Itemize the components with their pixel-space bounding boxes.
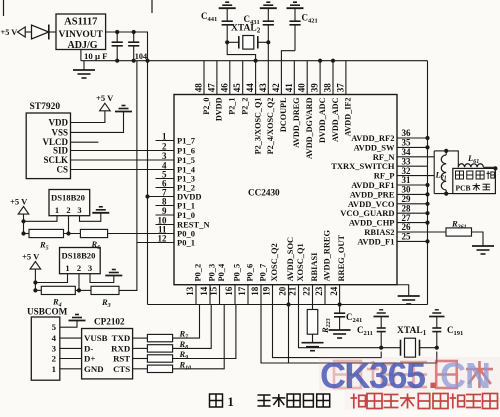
wire loop bottom <box>434 193 453 195</box>
svg-text:P2_0: P2_0 <box>202 98 211 115</box>
junction pin20 bus <box>286 302 290 306</box>
wire R3 to pin12 P0_1 <box>119 243 137 291</box>
svg-text:RST: RST <box>113 354 130 364</box>
pin 4 P1_4 <box>156 169 175 171</box>
junction rail corner <box>145 59 149 63</box>
wire node to L61 <box>446 151 458 167</box>
inverted ground above C211 <box>374 316 389 318</box>
svg-text:20: 20 <box>278 286 288 296</box>
junction pin2 R4R3 <box>77 288 81 292</box>
capacitor 104 <box>133 32 135 42</box>
svg-text:1: 1 <box>55 205 59 215</box>
pin 12 P0_1 <box>156 242 175 244</box>
pin 45 P2_2 <box>242 61 244 95</box>
svg-text:CN: CN <box>440 355 490 396</box>
svg-text:15: 15 <box>209 286 219 296</box>
svg-text:17: 17 <box>237 286 247 296</box>
wire USBCOM pin1 to GND <box>60 368 82 370</box>
svg-text:AVDD_RREG: AVDD_RREG <box>323 230 332 282</box>
svg-text:P1_1: P1_1 <box>177 201 195 211</box>
pin 23 AVDD_RREG <box>324 285 326 305</box>
svg-text:AVDD_DREG: AVDD_DREG <box>292 97 301 148</box>
svg-text:44: 44 <box>245 83 255 93</box>
junction pin 28 bus <box>425 211 429 215</box>
wire DS18B20-2 pin1 to +5V <box>35 274 67 283</box>
wire +5V to diode <box>25 31 31 33</box>
pin 37 AVDD_IF2 <box>345 61 347 95</box>
wire R261 to ground <box>472 232 484 246</box>
capacitor C441 <box>226 25 228 43</box>
voltage regulator U2 AS1117 <box>56 14 106 50</box>
junction L71 bottom <box>444 192 448 196</box>
inverted ground above C441 <box>219 7 236 9</box>
svg-text:ADJ/G: ADJ/G <box>68 40 98 51</box>
svg-text:39: 39 <box>310 83 320 93</box>
svg-text:2: 2 <box>52 354 57 364</box>
junction L71 top <box>444 149 448 153</box>
wire USBCOM pin4 to VUSB <box>60 337 82 339</box>
svg-text:TXD: TXD <box>112 333 131 343</box>
svg-text:42: 42 <box>271 83 281 93</box>
sensor U3 DS18B20 body <box>49 190 90 216</box>
inductor L71 <box>441 155 446 190</box>
pin 25 AVDD_F1 <box>397 240 428 242</box>
resistor R3 <box>91 286 119 294</box>
pin 41 AVDD_DREG <box>293 61 295 95</box>
pin 18 P0_7 <box>260 285 262 305</box>
wire AS1117 VOUT to bus corner <box>106 32 148 61</box>
junction +5V pin1 tap 2 <box>33 280 37 284</box>
inverted ground DS18B20 1 <box>92 212 109 214</box>
capacitor 10uF <box>116 32 118 42</box>
capacitor C241 <box>339 305 341 314</box>
svg-text:DCOUPL: DCOUPL <box>279 97 288 132</box>
svg-text:24: 24 <box>329 286 339 296</box>
pin 29 AVDD_VCO <box>397 203 428 205</box>
svg-text:16: 16 <box>224 286 234 296</box>
antenna box PCB antenna <box>453 168 496 193</box>
wire R6 to pin11 P0_0 <box>108 233 156 235</box>
svg-text:P1_6: P1_6 <box>177 146 195 156</box>
pin 48 P2_0 <box>203 61 205 95</box>
junction pin 35 bus <box>425 145 429 149</box>
junction +5V pin1 tap <box>21 219 25 223</box>
svg-text:P0_6: P0_6 <box>246 264 255 282</box>
svg-text:25: 25 <box>402 232 412 242</box>
pin 34 RF_N <box>397 156 434 158</box>
svg-text:+5 V: +5 V <box>22 252 40 262</box>
junction pin44 on rail <box>254 59 258 63</box>
wire crystal-left jog to pin 44 <box>227 42 255 94</box>
wire DVDD feed to pin 7 <box>148 196 175 198</box>
svg-text:CS: CS <box>56 165 68 175</box>
watermark background tint <box>319 357 500 391</box>
svg-text:+5 V: +5 V <box>96 93 114 103</box>
capacitor C431 <box>267 25 269 43</box>
svg-text:8: 8 <box>162 196 167 206</box>
svg-text:P0_2: P0_2 <box>194 264 203 282</box>
svg-text:ST7920: ST7920 <box>30 102 61 112</box>
wire ST7920 VDD to +5V <box>71 111 105 123</box>
pin 13 P0_2 <box>195 285 197 305</box>
svg-text:P1_7: P1_7 <box>177 136 196 146</box>
watermark slogan red text <box>351 394 366 409</box>
svg-text:2: 2 <box>162 141 167 151</box>
svg-text:P1_0: P1_0 <box>177 210 195 220</box>
wire pin19 to C211 node <box>273 305 382 358</box>
pin 2 P1_6 <box>156 150 175 152</box>
svg-text:AVDD_F1: AVDD_F1 <box>357 236 394 246</box>
junction +5V R5 tap <box>21 231 25 235</box>
pin 20 AVDD_SOC <box>288 285 290 305</box>
pin 8 P1_1 <box>156 205 175 207</box>
svg-text:19: 19 <box>262 286 272 296</box>
pin 9 P1_0 <box>156 214 175 216</box>
resistor R8 <box>147 345 172 352</box>
wire pin18 to C191 node <box>261 305 437 364</box>
wire DS18B20-2 pin3 to ground <box>90 274 114 283</box>
svg-text:VIN: VIN <box>59 30 77 40</box>
pin 5 P1_3 <box>156 178 175 180</box>
junction crystal right node <box>266 40 270 44</box>
svg-text:SCLK: SCLK <box>43 155 68 165</box>
wire C421 to pin 42 DCOUPL <box>281 51 295 95</box>
wire R9 to pin16 <box>173 305 236 359</box>
right power bus vertical <box>427 61 429 305</box>
wire CTS to R10 <box>133 368 148 370</box>
power rail segment left <box>81 60 148 62</box>
svg-text:XTAL1: XTAL1 <box>397 326 427 337</box>
resistor R6 <box>80 229 107 237</box>
wire ST7920 CS to pin4 <box>71 169 156 171</box>
svg-text:CC2430: CC2430 <box>248 188 280 198</box>
junction pin 29 bus <box>425 202 429 206</box>
svg-text:3: 3 <box>162 151 167 161</box>
wire L61 to antenna <box>483 166 495 168</box>
svg-text:AVDD_ADC: AVDD_ADC <box>331 97 340 142</box>
svg-text:DS18B20: DS18B20 <box>62 251 96 261</box>
svg-text:SID: SID <box>53 146 69 156</box>
svg-text:21: 21 <box>288 286 298 296</box>
wire loop top <box>434 150 446 152</box>
wire balun loop left edge <box>433 151 435 194</box>
svg-text:46: 46 <box>219 83 229 93</box>
resistor R10 <box>147 365 172 372</box>
svg-text:CP2102: CP2102 <box>94 317 125 327</box>
pin 32 RF_P <box>397 175 434 177</box>
wire DS18B20-1 pin3 to ground <box>80 213 101 222</box>
vertical DVDD feed line <box>147 61 149 305</box>
pin 7 DVDD <box>156 196 175 198</box>
wire RXD to R8 <box>133 347 148 349</box>
wire crystal-right to pin 43 <box>267 42 269 94</box>
vertical feed line to pin12 net <box>136 61 138 243</box>
svg-text:USBCOM: USBCOM <box>27 307 68 317</box>
svg-text:P2_2: P2_2 <box>241 98 250 115</box>
bottom power bus <box>148 304 428 306</box>
svg-text:CTS: CTS <box>113 364 130 374</box>
svg-text:2: 2 <box>66 205 70 215</box>
svg-text:48: 48 <box>194 83 204 93</box>
svg-text:DVDD_ADC: DVDD_ADC <box>318 97 327 143</box>
svg-text:AVDD_IF2: AVDD_IF2 <box>344 98 353 137</box>
pin 36 AVDD_RF2 <box>397 137 428 139</box>
svg-text:VOUT: VOUT <box>76 30 104 40</box>
wire pin21 to crystal left node <box>299 305 382 348</box>
svg-text:P0_5: P0_5 <box>233 264 242 282</box>
junction pin 27 bus <box>425 221 429 225</box>
svg-text:38: 38 <box>323 83 333 93</box>
pin 10 REST_N <box>156 224 175 226</box>
pin 28 VCO_GUARD <box>397 212 428 214</box>
inverted ground above C431 <box>260 7 277 9</box>
ic U1 CC2430 body <box>174 95 397 285</box>
svg-text:3: 3 <box>77 205 81 215</box>
wire R7 to pin13 <box>173 305 200 339</box>
ground below R261 <box>472 245 494 247</box>
svg-text:VDD: VDD <box>49 118 69 128</box>
inverted ground above VSS wire <box>115 111 132 113</box>
svg-text:1: 1 <box>228 395 234 409</box>
pin 33 TXRX_SWITCH <box>397 165 428 167</box>
pin 47 DVDD <box>216 61 218 95</box>
junction VOUT-C10u <box>115 30 119 34</box>
wire R5 to R6 <box>64 233 81 235</box>
wire pin20 below bus <box>288 305 290 364</box>
svg-text:+5 V: +5 V <box>10 197 28 207</box>
junction pin 31 bus <box>425 183 429 187</box>
caption figure 1 system schematic <box>210 394 223 407</box>
ground below R223 <box>302 342 324 344</box>
pin 30 AVDD_PRE <box>397 193 428 195</box>
svg-text:43: 43 <box>258 83 268 93</box>
wire RST to R9 <box>133 358 148 360</box>
svg-text:2: 2 <box>77 263 81 273</box>
svg-text:47: 47 <box>206 83 216 93</box>
pin 16 P0_5 <box>234 285 236 305</box>
pin 21 XOSC_Q1 <box>298 285 300 305</box>
wire R4 to R3 <box>75 289 91 291</box>
pin 22 RBIASI <box>312 285 314 305</box>
pin 26 RBIAS2 <box>397 231 446 233</box>
svg-text:XOSC_Q2: XOSC_Q2 <box>270 243 279 281</box>
svg-text:P0_1: P0_1 <box>177 238 195 248</box>
wire crop artifact top-left <box>3 0 5 16</box>
junction pin 30 bus <box>425 192 429 196</box>
svg-text:1: 1 <box>65 263 69 273</box>
svg-text:P2_1: P2_1 <box>228 98 237 115</box>
pin 17 P0_6 <box>247 285 249 305</box>
pin 27 AVDD_CHP <box>397 222 428 224</box>
svg-text:P0_3: P0_3 <box>208 264 217 282</box>
svg-text:CK365: CK365 <box>320 355 426 396</box>
svg-text:9: 9 <box>162 206 167 216</box>
wire ST7920 SID to pin2 <box>71 150 156 152</box>
svg-text:41: 41 <box>284 83 294 93</box>
wire USBCOM pin2 to D+ <box>60 358 82 360</box>
svg-text:+5 V: +5 V <box>1 28 18 37</box>
pin 19 XOSC_Q2 <box>272 285 274 305</box>
inverted ground above C421 <box>287 7 304 9</box>
resistor R223 <box>312 305 314 310</box>
diode D1 <box>32 25 49 39</box>
resistor R9 <box>147 355 172 362</box>
svg-text:3: 3 <box>52 343 57 353</box>
junction pin 36 bus <box>425 136 429 140</box>
inverted ground above C191 <box>429 316 444 318</box>
wire USBCOM pin3 to D- <box>60 347 82 349</box>
svg-text:10 μ F: 10 μ F <box>84 51 108 61</box>
svg-text:AS1117: AS1117 <box>64 17 97 28</box>
svg-text:RBIASI: RBIASI <box>310 253 319 282</box>
wire USBCOM pin5 to ground <box>60 321 77 328</box>
inverted ground USBCOM <box>69 320 86 322</box>
pin 24 RREG_OUT <box>339 285 341 305</box>
svg-text:P0_4: P0_4 <box>217 263 226 281</box>
junction VOUT-C104 <box>132 30 136 34</box>
svg-text:AVDD_DGVARD: AVDD_DGVARD <box>305 97 314 159</box>
capacitor C421 <box>294 25 296 51</box>
resistor R7 <box>147 334 172 341</box>
junction crystal left node <box>225 40 229 44</box>
wire R10 to pin15 <box>173 305 225 369</box>
svg-text:P2_4/XOSC_Q2: P2_4/XOSC_Q2 <box>266 98 275 155</box>
pin 1 P1_7 <box>156 140 175 142</box>
svg-text:104: 104 <box>135 52 147 61</box>
svg-text:RXD: RXD <box>111 343 130 353</box>
svg-text:3: 3 <box>88 263 92 273</box>
svg-text:RREG_OUT: RREG_OUT <box>337 235 346 282</box>
pin 6 P1_2 <box>156 187 175 189</box>
svg-text:45: 45 <box>232 83 242 93</box>
wire DS18B20-1 pin1 to +5V <box>24 216 58 222</box>
svg-text:14: 14 <box>199 286 209 296</box>
svg-text:D-: D- <box>84 343 93 353</box>
watermark red hanzi overlay <box>334 361 361 388</box>
junction pin24 bus C241 <box>338 302 342 306</box>
inductor L61 <box>458 164 483 168</box>
pin 31 AVDD_RF1 <box>397 184 428 186</box>
svg-text:1: 1 <box>52 364 56 374</box>
svg-text:P2_3/XOSC_Q1: P2_3/XOSC_Q1 <box>253 98 262 155</box>
junction pin2 R5R6 <box>66 231 70 235</box>
svg-text:GND: GND <box>84 364 104 374</box>
wire crop artifact near x=152 <box>151 0 153 13</box>
svg-text:5: 5 <box>52 322 57 332</box>
wire TXD to R7 <box>133 337 148 339</box>
ground below C241 <box>329 329 351 331</box>
resistor R5 <box>24 233 30 235</box>
inverted ground DS18B20 2 <box>105 275 122 277</box>
junction DVDD to pin7 <box>145 194 149 198</box>
svg-text:AVDD_SOC: AVDD_SOC <box>286 237 295 282</box>
svg-text:4: 4 <box>52 333 57 343</box>
pin 35 AVDD_SW <box>397 146 428 148</box>
junction antenna corner <box>493 166 497 170</box>
crystal XTAL1 <box>381 347 400 349</box>
svg-text:37: 37 <box>335 83 345 93</box>
svg-text:P1_5: P1_5 <box>177 155 195 165</box>
junction pin39 rail <box>318 59 322 63</box>
wire ST7920 SCLK to pin3 <box>71 159 156 161</box>
svg-text:XOSC_Q1: XOSC_Q1 <box>296 243 305 281</box>
svg-text:DVDD: DVDD <box>215 97 224 121</box>
wire AS1117 ADJ to ground rail <box>80 50 82 61</box>
sensor U4 DS18B20 body <box>60 248 101 274</box>
wire R8 to pin14 <box>173 305 212 349</box>
junction pin38 rail <box>331 59 335 63</box>
svg-text:40: 40 <box>297 83 307 93</box>
svg-text:PCB: PCB <box>456 184 471 193</box>
svg-text:VUSB: VUSB <box>84 333 108 343</box>
pin 39 DVDD_ADC <box>319 61 321 95</box>
pin 15 P0_4 <box>219 285 221 305</box>
+5V input arrow <box>18 27 26 37</box>
resistor R261 <box>446 228 472 236</box>
pin 11 P0_0 <box>156 233 175 235</box>
ground below chip right <box>398 295 420 297</box>
crystal XTAL2 <box>243 36 254 50</box>
svg-text:18: 18 <box>250 286 260 296</box>
svg-text:VSS: VSS <box>51 127 68 137</box>
resistor R4 <box>35 289 41 291</box>
pin 40 AVDD_DGVARD <box>306 61 308 95</box>
wire ST7920 VLCD stub <box>71 141 99 143</box>
svg-text:1: 1 <box>162 131 167 141</box>
pin 14 P0_3 <box>209 285 211 305</box>
junction +5V R4 tap <box>33 288 37 292</box>
svg-text:.: . <box>428 355 438 396</box>
wire DS18B20-1 pin2 down <box>68 216 70 234</box>
wire ST7920 VSS to ground <box>71 112 124 133</box>
pin 3 P1_5 <box>156 159 175 161</box>
capacitor C211 <box>379 346 383 350</box>
pin 38 AVDD_ADC <box>332 61 334 95</box>
svg-text:22: 22 <box>302 286 312 296</box>
wire diode to AS1117 <box>49 31 56 33</box>
svg-text:13: 13 <box>185 286 195 296</box>
wire chip corner to ground <box>397 285 409 296</box>
wire DS18B20-2 pin2 down <box>78 274 80 291</box>
top power rail to right bus <box>148 60 428 62</box>
pin 46 P2_1 <box>229 61 231 95</box>
svg-text:23: 23 <box>314 286 324 296</box>
svg-text:P0_7: P0_7 <box>259 264 268 282</box>
capacitor C191 <box>435 346 439 350</box>
svg-text:DS18B20: DS18B20 <box>51 193 85 203</box>
junction pin 25 bus <box>425 239 429 243</box>
svg-text:12: 12 <box>158 233 168 243</box>
ground below AS1117 <box>83 61 85 70</box>
svg-text:D+: D+ <box>84 354 95 364</box>
